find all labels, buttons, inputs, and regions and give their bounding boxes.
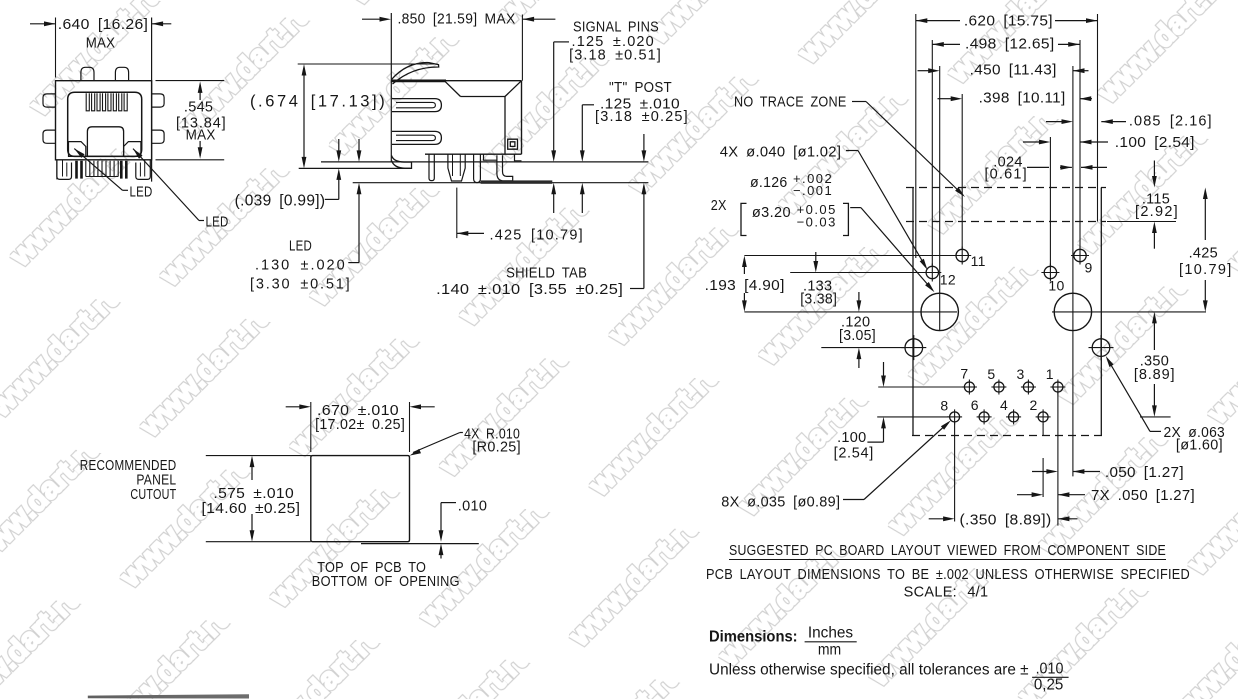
svg-text:MAX: MAX <box>186 128 216 144</box>
pcb layout: pin 2 column extension segments <box>1042 424 1044 436</box>
front view: right wing tab upper <box>152 94 165 107</box>
side view: rear standoff bend <box>515 154 522 161</box>
pcb layout: .115 extension line right <box>1107 221 1176 223</box>
pcb layout: LED hole 12 <box>926 266 938 278</box>
front view: left wing tab lower <box>43 130 56 143</box>
pcb layout: no trace zone bottom dashed line <box>906 221 1106 223</box>
pcb layout: .425 dimension line with arrows <box>1204 194 1206 240</box>
pcb layout: (.350) dimension arrows <box>929 518 946 520</box>
pcb layout: LED hole 10 <box>1044 266 1056 278</box>
pcb layout: big right bracket <box>843 203 848 235</box>
pcb layout: big hole left <box>921 293 958 330</box>
svg-text:.140 ±.010 [3.55 ±0.25]: .140 ±.010 [3.55 ±0.25] <box>436 282 623 298</box>
side view: rear window square <box>508 139 518 149</box>
pcb layout: LED hole 11 <box>956 249 968 261</box>
front view: bottom thick pins right pair <box>120 161 123 179</box>
svg-text:.620 [15.75]: .620 [15.75] <box>964 13 1053 29</box>
svg-text:mm: mm <box>818 641 841 658</box>
front view: .640 right extension line / body right edge <box>151 18 153 182</box>
pcb layout: footprint right edge <box>1100 188 1102 436</box>
svg-text:.010: .010 <box>1036 660 1064 677</box>
side view: spring finger slot upper <box>392 99 441 112</box>
svg-text:7X .050 [1.27]: 7X .050 [1.27] <box>1091 488 1195 504</box>
svg-text:8X ø.035 [ø0.89]: 8X ø.035 [ø0.89] <box>721 495 840 511</box>
pcb layout: row extension line pins 8642 <box>877 416 949 418</box>
svg-text:SHIELD TAB: SHIELD TAB <box>506 266 587 282</box>
side view: SIGNAL PINS leader elbow <box>554 41 569 43</box>
svg-text:−0.03: −0.03 <box>797 214 836 229</box>
svg-text:ø.126: ø.126 <box>750 175 788 191</box>
panel cutout: .010 lower arrow <box>439 544 444 556</box>
svg-text:SCALE: 4/1: SCALE: 4/1 <box>904 584 989 600</box>
side view: .425 extension line <box>456 188 458 239</box>
pcb layout: big hole right column extension <box>1072 66 1074 476</box>
side view: body top edge thick segment <box>392 80 447 83</box>
svg-text:5: 5 <box>987 366 995 382</box>
pcb layout: .450 dimension line with arrows <box>918 70 931 72</box>
side view: .674 dimension line with arrows <box>303 68 305 164</box>
pcb layout: .100 pin row dimension arrows and elbow <box>883 362 885 383</box>
front view: top latch bump right <box>115 67 128 80</box>
side view: .850 dimension line left arrow <box>362 18 380 20</box>
svg-text:.193 [4.90]: .193 [4.90] <box>705 278 785 294</box>
panel cutout: .010 upper arrow and elbow <box>441 502 456 504</box>
side view: body top edge <box>444 80 522 82</box>
side view: lower-left standoff line <box>299 167 410 169</box>
svg-text:[17.02± 0.25]: [17.02± 0.25] <box>315 417 405 433</box>
front view: bottom shield skirt right block <box>136 160 151 180</box>
svg-text:.085 [2.16]: .085 [2.16] <box>1129 114 1212 130</box>
front view: left skirt edge <box>56 160 58 180</box>
pcb layout: no trace zone top dashed line <box>906 187 1106 189</box>
svg-text:12: 12 <box>940 272 956 288</box>
pcb layout: .133 dimension arrows <box>815 252 817 269</box>
panel cutout: top of PCB line <box>361 543 479 545</box>
svg-text:[2.92]: [2.92] <box>1135 204 1178 220</box>
front view: right wing tab lower <box>152 130 165 143</box>
svg-text:.498 [12.65]: .498 [12.65] <box>965 37 1055 53</box>
svg-text:PCB LAYOUT DIMENSIONS TO B: PCB LAYOUT DIMENSIONS TO BE ±.002 UNLESS… <box>706 567 1190 583</box>
pcb layout: big left bracket <box>741 203 747 235</box>
svg-text:LED: LED <box>206 215 229 231</box>
pcb layout: .050 dimension arrows <box>1032 471 1050 473</box>
side view: shield tab step <box>484 154 497 160</box>
pcb layout: shield hole right <box>1092 339 1110 357</box>
svg-text:[3.18 ±0.25]: [3.18 ±0.25] <box>595 109 688 125</box>
side view: (.039) upper arrow <box>338 139 340 158</box>
pcb layout: signal pin holes row 8642 <box>950 412 960 422</box>
svg-text:MAX: MAX <box>86 35 116 51</box>
front view: top latch bump left <box>81 67 94 80</box>
front view: bottom shield skirt left block <box>57 160 72 180</box>
pcb layout: hole 12 column extension <box>931 40 933 266</box>
svg-text:[10.79]: [10.79] <box>1179 262 1232 278</box>
svg-text:4X ø.040 [ø1.02]: 4X ø.040 [ø1.02] <box>720 144 842 160</box>
svg-text:11: 11 <box>971 253 986 269</box>
pcb layout: .620 extension lines <box>915 14 917 258</box>
front view: jack body outline <box>56 81 152 160</box>
front view: bottom thick pins left pair <box>75 161 78 179</box>
svg-text:[8.89]: [8.89] <box>1134 367 1175 383</box>
side view: .425 dimension arrow <box>457 231 469 236</box>
pcb layout: .085 dimension arrows <box>1046 121 1066 123</box>
pcb layout: hole 9 column extension <box>1079 40 1081 249</box>
front view: contact comb teeth <box>86 93 89 111</box>
side view: LED .130 upper arrow <box>358 139 360 158</box>
pcb layout: .620 dimension line with arrows <box>916 20 960 22</box>
side view: (.039) lower arrow and elbow <box>336 168 341 180</box>
side view: wide pin with taper <box>448 154 465 181</box>
svg-text:"T" POST: "T" POST <box>609 80 672 96</box>
front view: LED leader line 2 with arrow <box>133 149 199 221</box>
side view: shield tab right dimension arrows <box>643 134 645 158</box>
side view: rear extension line <box>521 15 523 81</box>
side view: body bottom edge <box>425 153 522 155</box>
pcb layout: big hole left column extension <box>939 66 941 331</box>
side view: LED .130 lower arrow and elbow <box>357 183 362 195</box>
svg-text:2X: 2X <box>711 198 727 214</box>
svg-text:1: 1 <box>1046 366 1054 382</box>
panel cutout: 4X R.010 leader with arrow <box>413 433 460 453</box>
side view: T POST lower arrow <box>580 183 585 195</box>
svg-text:[3.38]: [3.38] <box>800 292 837 308</box>
svg-text:LED: LED <box>289 238 312 254</box>
pcb layout: row extension line big holes left <box>744 311 957 313</box>
svg-text:.425: .425 <box>1189 246 1218 262</box>
svg-text:CUTOUT: CUTOUT <box>130 487 176 503</box>
side view: T post <box>474 154 481 182</box>
svg-text:.398 [10.11]: .398 [10.11] <box>979 91 1066 107</box>
side view: inner top edge <box>461 96 506 98</box>
svg-text:LED: LED <box>130 185 153 201</box>
svg-text:.100: .100 <box>837 430 866 446</box>
pcb layout: row extension pins 8642 right segment <box>1140 416 1171 418</box>
front view: bottom center comb teeth <box>85 161 87 177</box>
pcb layout: .115 dimension arrows <box>1153 161 1155 185</box>
front view: left wing tab upper <box>43 94 56 107</box>
svg-text:2: 2 <box>1030 397 1038 413</box>
side view: shield tab bottom bar <box>481 180 553 183</box>
pcb layout: .100 dimension arrows <box>1023 141 1043 143</box>
svg-text:Unless otherwise specified, al: Unless otherwise specified, all toleranc… <box>709 661 1029 678</box>
svg-text:(.350 [8.89]): (.350 [8.89]) <box>960 513 1052 529</box>
front view: LED leader line 1 with arrow <box>74 149 122 191</box>
svg-text:3: 3 <box>1017 366 1025 382</box>
svg-text:[3.05]: [3.05] <box>839 328 876 344</box>
side view: .674 top extension line <box>298 63 438 65</box>
svg-text:NO TRACE ZONE: NO TRACE ZONE <box>734 94 847 110</box>
pcb layout: row extension line holes 11/9 <box>744 255 956 257</box>
front view: LED window left <box>69 142 86 157</box>
pcb layout: pin 1 column extension <box>1057 392 1059 526</box>
svg-text:.850 [21.59] MAX: .850 [21.59] MAX <box>398 11 516 27</box>
svg-text:PANEL: PANEL <box>136 473 176 489</box>
svg-text:(.674 [17.13]): (.674 [17.13]) <box>250 92 385 110</box>
svg-text:.100 [2.54]: .100 [2.54] <box>1115 135 1195 151</box>
bottom-left gray logo bar <box>88 694 249 698</box>
svg-text:Dimensions:: Dimensions: <box>709 629 798 646</box>
panel cutout: .575 extension lines <box>206 455 311 457</box>
svg-text:.050 [1.27]: .050 [1.27] <box>1105 465 1184 481</box>
pcb layout: footprint bottom dashed line <box>912 435 1103 437</box>
front view: .640 dimension line with arrows <box>30 23 56 25</box>
svg-text:SUGGESTED PC BOARD LAYOUT: SUGGESTED PC BOARD LAYOUT VIEWED FROM CO… <box>729 543 1166 559</box>
side view: seating plane line <box>321 161 648 163</box>
pcb layout: big hole right <box>1054 293 1091 330</box>
svg-text:10: 10 <box>1048 278 1064 294</box>
side view: signal pin front <box>429 154 434 180</box>
side view: pin bottom line <box>353 182 649 184</box>
front view: .640 left extension line <box>55 18 57 78</box>
side view: shield tab L-bracket <box>497 155 513 181</box>
svg-text:.010: .010 <box>458 499 487 515</box>
side view: spring finger slot lower <box>392 131 441 144</box>
pcb layout: .498 dimension line with arrows <box>932 43 960 45</box>
svg-text:[3.30 ±0.51]: [3.30 ±0.51] <box>250 276 350 292</box>
svg-text:.545: .545 <box>184 100 213 116</box>
pcb layout: row extension line shield holes <box>821 347 905 349</box>
svg-text:9: 9 <box>1085 260 1093 276</box>
pcb layout: pin 8 column extension <box>954 422 956 522</box>
svg-text:BOTTOM OF OPENING: BOTTOM OF OPENING <box>312 574 460 590</box>
side view: .850 dimension line right arrow <box>523 18 556 20</box>
svg-text:[ø1.60]: [ø1.60] <box>1176 438 1223 454</box>
svg-text:[R0.25]: [R0.25] <box>472 440 521 456</box>
pcb layout: shield hole left <box>905 339 923 357</box>
svg-text:[0.61]: [0.61] <box>984 166 1026 182</box>
side view: top chamfer right diagonal <box>505 81 522 97</box>
svg-text:.640 [16.26]: .640 [16.26] <box>58 17 149 33</box>
panel cutout: .670 dimension arrows <box>286 406 302 408</box>
svg-text:4: 4 <box>1000 397 1008 413</box>
front view: LED window right <box>124 142 141 157</box>
svg-text:ø3.20: ø3.20 <box>752 205 791 221</box>
pcb layout: .398 dimension line with arrows <box>938 98 952 100</box>
pcb layout: hole 11 column extension <box>961 94 963 249</box>
pcb layout: signal pin holes row 7531 <box>964 382 974 392</box>
front view: .545 top extension line <box>156 80 225 82</box>
pcb layout: LED hole 9 <box>1074 249 1086 261</box>
svg-text:8: 8 <box>940 398 948 414</box>
side view: body rear edge <box>521 81 523 155</box>
pcb layout: .120 dimension arrows <box>858 292 860 308</box>
pcb layout: row extension line pins 7531 <box>878 386 963 388</box>
pcb layout: footprint left edge <box>912 188 914 436</box>
svg-text:[14.60 ±0.25]: [14.60 ±0.25] <box>202 501 301 517</box>
pcb layout: .193 dimension line with arrows <box>743 259 745 274</box>
side view: top EMI curl <box>392 63 439 84</box>
svg-text:6: 6 <box>971 397 979 413</box>
side view: SIGNAL PINS lower arrow <box>551 183 556 195</box>
pcb layout: .350 dimension line with arrows <box>1153 316 1155 350</box>
side view: front face extension line <box>390 13 392 162</box>
svg-text:(.039 [0.99]): (.039 [0.99]) <box>235 192 326 209</box>
side view: T POST leader elbow <box>582 104 594 106</box>
svg-text:.425 [10.79]: .425 [10.79] <box>489 228 583 244</box>
side view: inner vertical edge <box>504 97 506 155</box>
pcb layout: hole 10 column extension <box>1049 137 1051 266</box>
svg-text:0,25: 0,25 <box>1034 676 1064 693</box>
svg-text:RECOMMENDED: RECOMMENDED <box>80 458 177 474</box>
pcb layout: row extension line big holes right <box>1052 311 1206 313</box>
panel cutout: .670 extension lines <box>310 402 312 452</box>
front view: .545 bottom extension line <box>156 159 225 161</box>
pcb layout: 7X .050 dimension arrows <box>1017 494 1035 496</box>
front view: plug tongue <box>87 127 123 157</box>
svg-text:[3.18 ±0.51]: [3.18 ±0.51] <box>569 48 661 64</box>
front view: .545 dimension line with arrows <box>199 85 201 100</box>
panel cutout: rectangle <box>311 456 410 542</box>
pcb layout: .024 dimension arrows and leader <box>1027 166 1049 168</box>
svg-text:.130 ±.020: .130 ±.020 <box>255 257 345 273</box>
svg-text:.450 [11.43]: .450 [11.43] <box>970 63 1057 79</box>
svg-text:Inches: Inches <box>808 625 853 642</box>
pcb layout: row extension line holes 12/10 <box>790 272 926 274</box>
svg-text:−.001: −.001 <box>793 183 832 198</box>
side view: top chamfer left diagonal <box>444 81 460 97</box>
front view: RJ45 opening rounded rectangle <box>68 92 142 156</box>
pcb layout: chassis hole leader arrow <box>850 207 861 209</box>
svg-text:.575 ±.010: .575 ±.010 <box>213 486 294 502</box>
panel cutout: .575 dimension line with arrows <box>251 459 253 480</box>
svg-text:[2.54]: [2.54] <box>834 445 874 461</box>
svg-text:7: 7 <box>960 365 968 381</box>
side view: front shield foot <box>392 156 412 163</box>
